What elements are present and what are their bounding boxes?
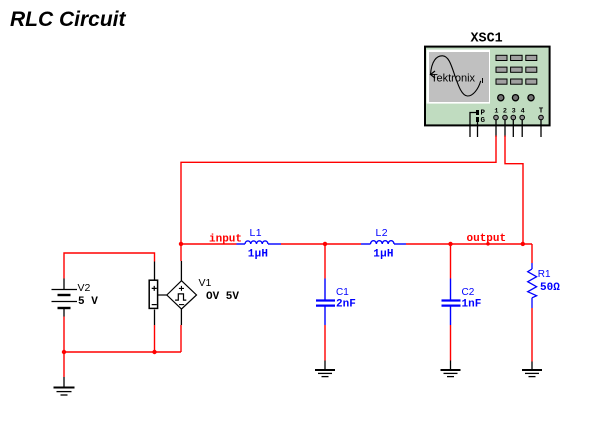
svg-text:R1: R1	[538, 269, 551, 280]
svg-text:3: 3	[512, 107, 516, 115]
svg-text:V1: V1	[199, 277, 212, 289]
svg-text:RLC Circuit: RLC Circuit	[10, 8, 127, 31]
svg-text:V2: V2	[78, 282, 91, 294]
svg-text:1nF: 1nF	[462, 299, 482, 311]
svg-text:1µH: 1µH	[248, 249, 268, 261]
svg-text:L1: L1	[250, 227, 262, 239]
svg-text:2nF: 2nF	[336, 299, 356, 311]
svg-text:4: 4	[521, 107, 525, 115]
svg-text:2: 2	[503, 107, 507, 115]
svg-text:G: G	[481, 117, 486, 125]
svg-text:50Ω: 50Ω	[540, 282, 560, 294]
svg-text:C2: C2	[462, 287, 475, 298]
svg-text:C1: C1	[336, 287, 349, 298]
svg-text:T: T	[539, 108, 544, 116]
svg-text:output: output	[467, 233, 507, 245]
svg-text:1µH: 1µH	[373, 249, 393, 261]
svg-text:1: 1	[494, 107, 498, 115]
svg-text:input: input	[209, 234, 242, 246]
svg-text:5 V: 5 V	[78, 296, 98, 308]
svg-text:OV 5V: OV 5V	[206, 291, 239, 303]
svg-text:XSC1: XSC1	[471, 32, 503, 47]
svg-text:L2: L2	[376, 227, 388, 239]
svg-text:Tektronix: Tektronix	[431, 73, 476, 85]
